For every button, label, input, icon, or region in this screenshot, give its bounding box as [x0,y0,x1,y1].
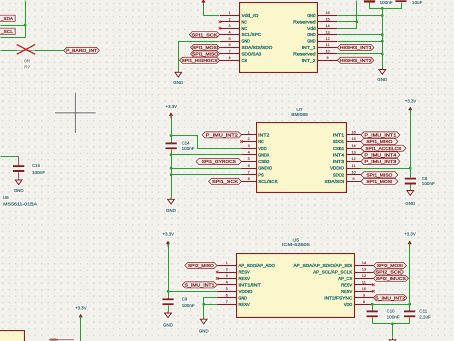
global label SPI1_MOSI [191,44,220,50]
junction caps/gnd rail [381,7,384,10]
wire C14 to GND symbol [171,150,173,198]
wire gnd bus down [392,324,394,338]
svg-text:10uF: 10uF [412,0,423,5]
svg-text:SCL/SCK: SCL/SCK [258,179,278,184]
svg-text:GNDIO: GNDIO [258,166,272,171]
svg-text:INT2/FSYNC: INT2/FSYNC [324,295,353,300]
svg-text:P_IMU_INT1: P_IMU_INT1 [364,133,396,138]
pin 8 VDD of U5 [344,299,374,307]
junction pin15/Vdd rail [355,20,358,23]
pin 6 SDA/SDI/SDO of top IC [220,42,273,50]
no-connect pin 2 U5 [216,271,219,274]
svg-text:INT3: INT3 [333,159,345,164]
svg-text:GND: GND [163,323,174,328]
no-connect pin 10 U5 [372,290,375,293]
svg-text:GNDA: GNDA [258,152,270,157]
svg-text:16: 16 [351,130,356,135]
wire VDD branch to U7 pin3 [172,136,242,149]
pin 15 Reserved of top IC [293,17,337,25]
svg-text:+3.3V: +3.3V [405,98,417,103]
junction pin7 gnd [202,303,205,306]
capacitor 10uF plate [395,0,406,2]
global label SPI1_MISO (U7 p15) [361,138,398,144]
pin 6 GNDIO of U7 [242,163,273,171]
no-connect pin 3 U5 [216,277,219,280]
svg-text:PS: PS [258,172,264,177]
svg-text:14: 14 [351,143,356,148]
value ICM-42605 [282,242,310,247]
power +3.3V (right of U5) [404,232,416,247]
svg-text:13: 13 [351,150,356,155]
svg-text:+3.3V: +3.3V [163,232,175,237]
svg-text:SPI1_ACCELCS: SPI1_ACCELCS [365,146,401,151]
svg-text:GND: GND [377,77,388,82]
pin 9 INT2/FSYNC of U5 [324,293,373,301]
global label P_BARO_INT [64,47,100,53]
pin 9 SDA/SDI of U7 [325,176,361,184]
svg-text:Reserved: Reserved [293,19,316,24]
svg-text:SPI1_GYROCS: SPI1_GYROCS [202,159,236,164]
svg-text:SPI2_MISO: SPI2_MISO [188,263,214,268]
svg-text:MS5611-01BA: MS5611-01BA [3,202,38,207]
svg-text:10: 10 [351,170,356,175]
no-connect pin 3 top IC [219,27,222,30]
svg-text:AP_SDA/AP_SDIO/AP_SDI: AP_SDA/AP_SDIO/AP_SDI [294,263,353,268]
cursor crosshair [55,93,96,133]
IC body (bottom left, cropped) [0,331,25,341]
svg-text:GND: GND [307,32,316,37]
junction gnd bus [391,322,394,325]
wire to C15 [1,156,19,158]
junction pin6 gnd [170,167,173,170]
wire +3.3V bottom left down [80,317,82,341]
svg-text:Vdd: Vdd [307,26,316,31]
svg-text:R?: R? [24,65,31,70]
svg-text:SPI1_SCK: SPI1_SCK [192,32,219,37]
svg-text:SPI2_IMUCS: SPI2_IMUCS [376,276,406,281]
svg-text:100nF: 100nF [380,0,393,5]
wire GND vertical rail (right of top IC) [382,9,384,69]
global label P_IMU_INT2 [202,132,242,138]
label fragment (bottom edge) [49,338,74,341]
global label SPI1_SCK (U7) [209,178,242,184]
svg-text:C11: C11 [419,309,427,314]
svg-text:10: 10 [362,286,367,291]
svg-text:S_IMU_INT2: S_IMU_INT2 [375,295,405,300]
svg-text:+3.3V: +3.3V [404,232,416,237]
pin 4 SCL/SPC of top IC [220,29,262,37]
capacitor 100nF value [380,0,393,5]
junction pin7 gnd [170,173,173,176]
junction pin12/gnd rail [381,40,384,43]
svg-text:GND: GND [307,39,316,44]
resistor R? body (DNP) [17,49,35,51]
reference U6 [3,195,9,200]
wire +3.3V down to C14 [171,116,173,143]
global label SPI2_MOSI [373,262,406,268]
svg-text:+3.3V: +3.3V [166,104,178,109]
global label SPI1_GYROCS [196,158,242,164]
wire SCL net [1,37,26,39]
capacitor C14 [166,141,195,151]
capacitor C15 [13,163,45,175]
pin 5 GND of top IC [220,36,250,44]
wire pin 16 GND to vertical [338,15,383,17]
svg-text:GND: GND [173,80,184,85]
svg-text:0R: 0R [24,59,30,64]
global label SPI1_ACCELCS [361,145,406,151]
ground (below U5 left) [199,317,210,333]
pin 2 RESV of U5 [217,267,250,275]
svg-text:12: 12 [325,36,330,41]
global label SPI1_MOSI (U7 p9) [361,178,398,184]
wire U7 pin7 PS [172,174,242,176]
global label _SCL [0,28,15,34]
svg-text:SDA/SDI/SDO: SDA/SDI/SDO [242,45,273,50]
svg-text:C15: C15 [32,163,40,168]
junction pin10/gnd rail [381,52,384,55]
junction VDD branch [170,134,173,137]
pin 10 RESV of U5 [341,286,373,294]
wire pin 5 GND [179,42,220,71]
wire +3.3V to pin 1 [204,6,220,16]
svg-text:RESV: RESV [239,276,251,281]
capacitor C11 [404,309,431,320]
svg-text:S_IMU_INT1: S_IMU_INT1 [185,283,215,288]
svg-text:C10: C10 [387,309,395,314]
svg-text:SDO/SA0: SDO/SA0 [242,52,262,57]
pin 10 SDO2 of U7 [333,170,361,178]
svg-text:SPI1_MISO: SPI1_MISO [366,172,392,177]
svg-text:_SDA: _SDA [0,16,14,21]
pin 16 INT1 of U7 [333,130,361,138]
reference U7 [296,107,303,112]
wire +3.3V down to C11 [409,244,411,311]
svg-text:RESV: RESV [341,289,353,294]
pin 11 RESV of U5 [341,280,373,288]
global label SPI1_HIGHGCS [180,57,220,63]
svg-text:13: 13 [325,29,330,34]
pin 14 Vdd of top IC [307,23,337,31]
svg-text:SPI: SPI [50,338,58,341]
IC U5 body [237,254,355,318]
pin 13 INT4 of U7 [333,150,361,158]
svg-text:HIGHG_INT2: HIGHG_INT2 [340,58,372,63]
junction pin16/gnd rail [381,14,384,17]
no-connect pin 11 U5 [372,284,375,287]
svg-text:AP_SCL/AP_SCLK: AP_SCL/AP_SCLK [313,270,353,275]
svg-text:VDDIO: VDDIO [239,289,253,294]
global label SPI1_MISO (U7 p10) [361,172,398,178]
ground (below C8) [405,189,416,206]
svg-text:SDO1: SDO1 [333,139,345,144]
pin 3 RESV of U5 [217,273,250,281]
svg-text:CS: CS [242,58,248,63]
no-connect pin 2 top IC [219,20,222,23]
svg-text:BMI088: BMI088 [291,112,308,117]
pin 7 RESV of U5 [217,299,250,307]
svg-text:GND: GND [405,201,416,206]
wire pin 14 Vdd [338,28,357,29]
pin 3 NC of top IC [220,23,248,31]
svg-text:100nF: 100nF [422,181,435,186]
power +3.3V (right of U7) [405,98,417,112]
wire caps gnd bus [373,323,410,325]
pin 7 PS of U7 [242,170,264,178]
svg-text:P_IMU_INT4: P_IMU_INT4 [364,152,396,157]
svg-text:GND: GND [14,188,25,193]
svg-text:SDA/SDI: SDA/SDI [325,179,345,184]
global label P_IMU_INT1 [361,132,400,138]
pin 4 INT1/INT of U5 [217,280,261,288]
svg-text:15: 15 [351,136,356,141]
pin 8 SCL/SCK of U7 [242,176,279,184]
svg-text:2.2uF: 2.2uF [419,315,431,320]
svg-text:INT_1: INT_1 [302,45,316,50]
svg-text:_SCL: _SCL [0,29,13,34]
svg-text:NC: NC [242,19,248,24]
wire C11 bottom [409,318,411,324]
pin 10 Reserved of top IC [293,49,337,57]
wire C8 to GND [410,185,412,189]
svg-text:HIGHG_INT1: HIGHG_INT1 [340,45,372,50]
svg-text:10: 10 [325,49,330,54]
pin 11 INT_1 of top IC [302,42,338,50]
pin 3 VDD of U7 [242,143,268,151]
pin 1 INT2 of U7 [242,130,270,138]
pin 7 SDO/SA0 of top IC [220,49,262,57]
svg-text:SPI2_MOSI: SPI2_MOSI [377,263,403,268]
svg-text:GND: GND [166,208,177,213]
pin 14 CSB1 of U7 [333,143,361,151]
svg-text:INT4: INT4 [333,152,345,157]
svg-text:VDD: VDD [258,146,267,151]
svg-text:RESV: RESV [239,302,251,307]
power +3.3V (top, cropped) [201,0,206,6]
svg-text:P_IMU_INT3: P_IMU_INT3 [364,159,396,164]
wire to resistor R? [1,50,18,52]
wire vertical Vdd rail up [356,1,358,28]
pin stem C15 bottom [18,172,20,178]
svg-text:SPI1_MISO: SPI1_MISO [366,139,392,144]
svg-text:CSB2: CSB2 [258,159,270,164]
svg-text:CSB1: CSB1 [333,146,345,151]
svg-text:INT_2: INT_2 [302,58,316,63]
wire pin 13 GND [338,34,383,36]
svg-text:15: 15 [325,17,330,22]
global label SPI2_SCK [373,269,403,275]
svg-text:12: 12 [362,273,367,278]
junction pin8/C10 [371,303,374,306]
svg-text:100nF: 100nF [32,170,45,175]
wire pin 15 Reserved [338,21,357,23]
ground (right of top IC) [377,68,388,82]
svg-text:100nF: 100nF [182,146,195,151]
reference R? text [24,65,31,70]
pin 12 AP_CS of U5 [338,273,373,281]
junction pin13/gnd rail [381,33,384,36]
ground (below top IC left) [173,71,184,86]
junction pin5 +3.3V [167,290,170,293]
capacitor C8 [405,176,435,186]
svg-text:NC: NC [242,26,248,31]
wire resistor to label [35,50,64,52]
svg-text:+3.3V: +3.3V [75,306,87,311]
junction pin11 +3.3V [409,167,412,170]
pin 13 GND of top IC [307,29,337,37]
wire cap1 to gnd rail [370,3,402,9]
DNP cross on R? [17,44,36,54]
wire C10 stem [372,305,374,311]
wire U7 pin4 GNDA [172,154,242,156]
ground (below C9) [163,311,174,327]
pin 11 VDDIO of U7 [330,163,361,171]
pin 14 AP_SDA/AP_SDIO/AP_SDI of U5 [294,260,374,268]
capacitor C9 [162,296,195,308]
global label HIGHG_INT1 [337,44,374,50]
global label P_IMU_INT4 [361,152,400,158]
wire U7 pin6 GNDIO [172,168,242,170]
svg-text:Reserved: Reserved [293,52,316,57]
global label SPI2_IMUCS [373,275,408,281]
svg-text:14: 14 [325,23,330,28]
value BMI088 [291,112,308,117]
svg-text:U6: U6 [3,195,9,200]
svg-text:GND: GND [199,329,210,334]
wire SDA net [1,25,26,27]
pin 4 GNDA of U7 [242,150,271,158]
svg-text:SPI2_SCK: SPI2_SCK [376,270,403,275]
IC U7 body [257,123,347,193]
svg-text:SPI1_SCK: SPI1_SCK [212,179,239,184]
wire U5 pin7 RESV [204,304,218,306]
svg-text:12: 12 [351,156,356,161]
svg-text:NC: NC [258,139,264,144]
pin 13 AP_SCL/AP_SCLK of U5 [313,267,373,275]
global label P_IMU_INT3 [361,158,400,164]
IC U? body (top) [240,3,318,73]
pin 5 VDDIO of U5 [217,286,253,294]
svg-text:AP_CS: AP_CS [338,276,352,281]
junction at SDA wire [24,24,27,27]
wire pin 10 Reserved [338,53,383,55]
global label HIGHG_INT2 [337,57,374,63]
wire U5 pin5 VDDIO [169,291,218,293]
global label SPI2_MISO [185,262,217,268]
svg-text:AP_SDO/AP_ADO: AP_SDO/AP_ADO [239,263,276,268]
pin 9 INT_2 of top IC [302,55,338,63]
capacitor 100nF plate [364,0,375,2]
svg-text:SPI1_MOSI: SPI1_MOSI [192,45,218,50]
svg-text:RESV: RESV [341,283,353,288]
wire U5 pin8 VDD [373,304,410,306]
svg-text:P_IMU_INT2: P_IMU_INT2 [206,133,238,138]
power +3.3V (left of U7) [166,104,178,118]
svg-text:SCL/SPC: SCL/SPC [242,32,262,37]
pin 2 NC of top IC [220,17,248,25]
svg-text:INT1: INT1 [333,133,345,138]
svg-text:Vdd_IO: Vdd_IO [242,13,259,18]
svg-text:INT1/INT: INT1/INT [239,283,262,288]
pin 16 GND of top IC [307,10,337,18]
svg-text:SDO2: SDO2 [333,172,345,177]
pin 1 Vdd_IO of top IC [220,10,259,18]
svg-text:RESV: RESV [239,270,251,275]
svg-text:GND: GND [307,13,316,18]
svg-text:16: 16 [325,10,330,15]
pin 8 CS of top IC [220,55,247,63]
power +3.3V (bottom left) [75,306,87,320]
wire C9 to GND [168,306,170,312]
svg-text:ICM-42605: ICM-42605 [282,242,310,247]
pin 15 SDO1 of U7 [333,136,361,144]
svg-text:P_BARO_INT: P_BARO_INT [66,48,97,53]
wire C10 bottom [372,318,374,324]
wire pin 12 GND [338,41,383,43]
pin stem C15 top [18,156,20,165]
svg-text:VDD: VDD [344,302,353,307]
global label S_IMU_INT2 [373,295,407,301]
ground (bottom right, cropped) [389,338,396,341]
wire +3.3V down to C8 [410,110,412,178]
wire U7 pin11 VDDIO [361,168,411,170]
pin 6 GND of U5 [217,293,247,301]
junction pin4 gnd [170,153,173,156]
svg-text:GND: GND [239,295,248,300]
wire +3.3V down to C9 [168,244,170,299]
svg-text:14: 14 [362,260,367,265]
svg-text:GND: GND [242,39,251,44]
power +3.3V (left of U5) [163,232,175,247]
wire U5 pin6 GND [204,298,218,318]
capacitor C10 [367,309,400,320]
pin 12 INT3 of U7 [333,156,361,164]
ground (below C14) [166,198,177,214]
global label SPI1_SCK [189,32,219,38]
pin 12 GND of top IC [307,36,337,44]
capacitor 10uF value [412,0,423,5]
junction pin8/+3.3V [408,303,411,306]
svg-text:13: 13 [362,267,367,272]
svg-text:INT2: INT2 [258,133,270,138]
svg-text:100nF: 100nF [182,303,195,308]
svg-text:SPI1_HIGHGCS: SPI1_HIGHGCS [182,58,218,63]
svg-text:C9: C9 [182,296,188,301]
svg-text:100nF: 100nF [387,315,400,320]
svg-text:SPI1_MOSI: SPI1_MOSI [366,179,392,184]
capacitor 100nF (top right) [364,0,375,3]
svg-text:VDDIO: VDDIO [330,166,344,171]
ground (below C15) [14,178,25,193]
wire vertical to top edge [25,1,27,38]
value MS5611-01BA [3,202,38,207]
pin 1 AP_SDO/AP_ADO of U5 [217,260,275,268]
reference U5 [293,238,300,243]
global label _SDA [0,15,15,21]
global label S_IMU_INT1 [182,282,217,288]
pin 2 NC of U7 [242,136,265,144]
value 0R of R? [24,59,30,64]
pin 5 CSB2 of U7 [242,156,270,164]
global label SPI1_MISO [191,51,220,57]
svg-text:SPI1_MISO: SPI1_MISO [192,52,218,57]
no-connect pin 2 U7 [240,140,243,143]
